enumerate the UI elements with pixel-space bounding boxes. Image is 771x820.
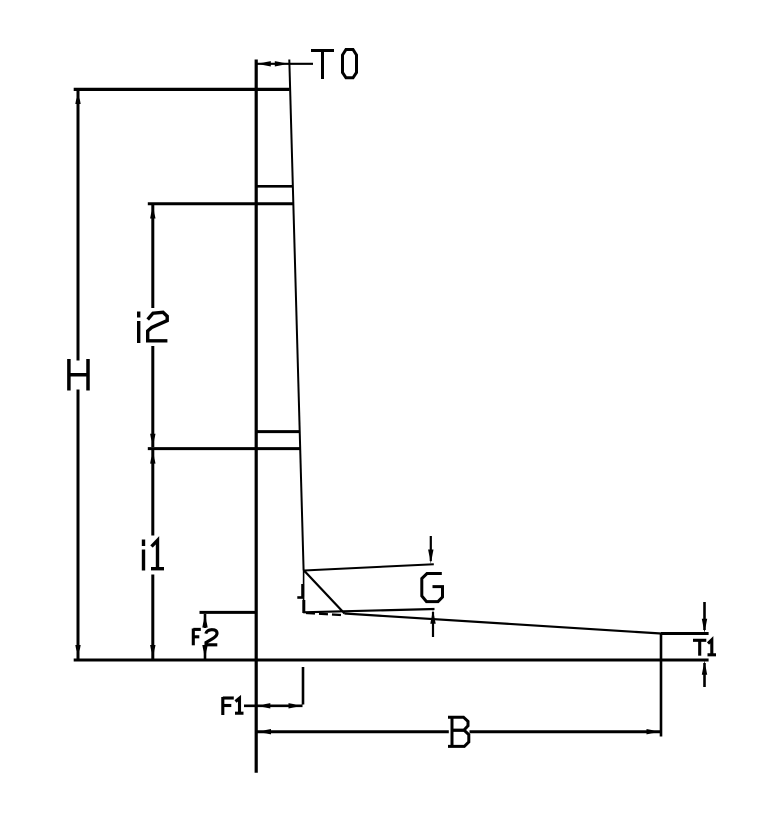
H arrow down bbox=[75, 645, 80, 659]
F2 top extension line bbox=[200, 611, 257, 614]
wall left edge bbox=[255, 60, 258, 773]
wall joint line upper bbox=[256, 185, 292, 188]
footing right edge bbox=[660, 634, 663, 737]
dimension B line bbox=[257, 730, 661, 733]
wall joint line lower bbox=[256, 430, 299, 433]
label F1 bbox=[223, 697, 244, 715]
dimension H line bbox=[77, 91, 80, 659]
T1 arrow down line bbox=[703, 602, 706, 630]
T1 top extension line bbox=[661, 632, 709, 635]
footing top hidden dashed bbox=[306, 613, 345, 615]
haunch diagonal bbox=[304, 571, 345, 614]
G arrow up bbox=[430, 610, 435, 624]
F1 arrow left bbox=[256, 703, 270, 708]
T0 arrow left bbox=[257, 61, 271, 66]
wall face lower segment bbox=[303, 571, 305, 614]
T1 arrow down bbox=[702, 619, 707, 633]
T1 arrow up bbox=[702, 661, 707, 675]
dimension i1 line bbox=[151, 450, 154, 659]
G arrow down line bbox=[430, 536, 432, 561]
ground line bbox=[74, 659, 709, 662]
G arrow down bbox=[428, 550, 433, 564]
B arrow left bbox=[257, 729, 271, 734]
i2 arrow down bbox=[150, 434, 155, 448]
i2 bottom extension line bbox=[148, 447, 301, 450]
label T0 bbox=[311, 50, 357, 80]
label H bbox=[69, 359, 88, 391]
T0 dimension line bbox=[256, 63, 313, 65]
dimension F1 line bbox=[244, 704, 303, 707]
label F2 bbox=[193, 629, 217, 646]
footing top bbox=[345, 614, 662, 634]
F1 right extension line bbox=[302, 667, 305, 705]
T0 arrow right bbox=[275, 61, 289, 66]
F1 arrow right bbox=[289, 703, 303, 708]
i2 arrow up bbox=[150, 205, 155, 219]
dimension F2 line bbox=[204, 614, 207, 659]
label i1 bbox=[144, 540, 165, 571]
G top extension line bbox=[304, 564, 434, 570]
G arrow up line bbox=[432, 612, 434, 637]
i1 arrow down bbox=[150, 645, 155, 659]
label i2 bbox=[139, 312, 168, 344]
B arrow right bbox=[647, 729, 661, 734]
T1 arrow up line bbox=[703, 663, 706, 687]
dimension i2 line bbox=[151, 205, 154, 447]
slope mark 1 digit bbox=[301, 584, 304, 597]
slope mark lower tick bbox=[302, 600, 305, 613]
wall right edge bbox=[289, 60, 303, 571]
label G bbox=[422, 574, 443, 602]
H arrow up bbox=[75, 90, 80, 104]
F2 arrow down bbox=[202, 645, 207, 659]
F2 arrow up bbox=[202, 614, 207, 628]
H top extension line bbox=[74, 88, 290, 91]
i1 arrow up bbox=[150, 450, 155, 464]
label B bbox=[448, 717, 469, 747]
label T1 bbox=[693, 640, 716, 656]
i2 top extension line bbox=[148, 202, 294, 205]
G bottom extension line bbox=[303, 609, 434, 612]
